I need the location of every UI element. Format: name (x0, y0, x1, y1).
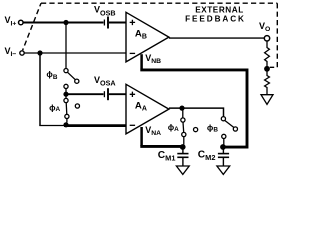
dashed external feedback path (23, 3, 278, 67)
node CM2 (220, 144, 226, 150)
label AB (135, 29, 147, 41)
label CM1 (158, 150, 176, 162)
label phiA left (49, 102, 60, 113)
wire VI+ node down to phiB switch (65, 23, 67, 69)
node AA output (179, 106, 184, 111)
ground CM1 (176, 166, 189, 174)
resistor R2 (265, 69, 270, 95)
feedback thick wire VNB to CM2 (140, 70, 247, 147)
svg-text:EXTERNAL: EXTERNAL (195, 5, 244, 14)
label AA (135, 101, 147, 113)
thick wire VNA to CM1 (140, 145, 183, 148)
wire VI+ line (23, 22, 103, 24)
wire AA- thick rail (64, 124, 127, 127)
node divider (264, 66, 270, 72)
switch phiB right (221, 117, 237, 145)
tap VNA (140, 127, 143, 146)
wire AA output (169, 108, 224, 117)
op-amp AB (126, 12, 169, 62)
resistor R1 (265, 41, 270, 66)
switch phiA left (64, 94, 80, 122)
wire VI- down (39, 53, 41, 126)
capacitor CM2 (218, 147, 229, 166)
ground divider (261, 95, 273, 105)
label VNA (145, 125, 161, 137)
wire bottom-left corner to phiA node (39, 125, 64, 127)
tap VNB (140, 54, 143, 68)
node on VI- (37, 50, 42, 55)
op-amp AA (126, 84, 169, 134)
svg-text:FEEDBACK: FEEDBACK (185, 15, 246, 24)
ground CM2 (217, 166, 230, 174)
label phiB center (207, 123, 218, 134)
node AA- rail (63, 122, 68, 127)
label VI- (5, 46, 17, 58)
offset source VOSA (66, 88, 126, 100)
wire AB output (169, 37, 264, 39)
switch phiA center (181, 108, 198, 145)
label VO (259, 21, 270, 33)
label VOSB (94, 5, 116, 18)
wire VI- line (24, 52, 126, 54)
label CM2 (198, 149, 216, 161)
terminal VI+ (19, 20, 24, 25)
node VOSA (63, 92, 68, 97)
offset source VOSB (104, 17, 126, 29)
label VI+ (5, 15, 17, 27)
switch phiB left (64, 69, 79, 93)
node CM1 (180, 144, 186, 150)
label EXTERNAL FEEDBACK (185, 5, 246, 23)
node on VI+ (63, 20, 68, 25)
capacitor CM1 (177, 147, 188, 166)
label VOSA (94, 75, 116, 88)
label phiB left (46, 69, 57, 81)
label VNB (145, 53, 161, 65)
label phiA center (168, 122, 179, 133)
terminal VO (264, 36, 269, 41)
terminal VI- (20, 51, 24, 55)
